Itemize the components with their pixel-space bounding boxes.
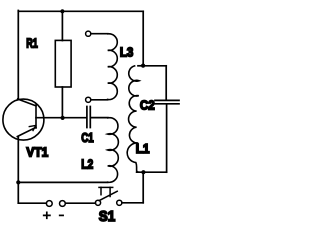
wire C2 bottom lead — [166, 104, 168, 172]
wire C1 to L2 — [91, 117, 108, 119]
node battery minus terminal circle — [60, 201, 66, 207]
svg-text:VT1: VT1 — [26, 145, 48, 160]
svg-text:C1: C1 — [81, 130, 93, 145]
node top rail junction dot — [60, 9, 64, 13]
label plus — [44, 212, 50, 218]
switch S1 actuator right leg — [109, 187, 111, 196]
svg-text:L3: L3 — [120, 44, 133, 59]
switch S1 actuator bar — [99, 186, 113, 188]
svg-text:C2: C2 — [140, 98, 155, 113]
svg-text:R1: R1 — [26, 36, 38, 51]
inductor L1 — [127, 66, 139, 172]
wire right riser — [142, 172, 144, 203]
wire R1 bottom lead — [61, 87, 63, 118]
svg-text:L1: L1 — [136, 141, 150, 156]
inductor L3 — [108, 34, 118, 100]
svg-text:S1: S1 — [99, 209, 115, 223]
node battery plus terminal circle — [46, 201, 52, 207]
wire L3 bottom coil to terminal — [91, 99, 108, 101]
inductor L2 — [108, 118, 119, 183]
switch S1 contact right circle — [117, 200, 122, 205]
node L3 bottom terminal circle — [86, 97, 91, 102]
wire battery to switch — [65, 202, 95, 204]
switch S1 blade — [99, 191, 117, 200]
wire bottom left to battery — [18, 202, 46, 204]
svg-text:L2: L2 — [81, 156, 93, 171]
node L1 bottom junction dot — [141, 170, 145, 174]
wire L1 top to C2 — [143, 65, 166, 67]
wire L3 top terminal to coil — [91, 33, 108, 35]
wire top rail — [18, 10, 143, 12]
capacitor C2 — [155, 100, 179, 103]
wire right drop from top rail to L1 top — [142, 11, 144, 65]
node L1 top junction dot — [141, 64, 145, 68]
label minus — [60, 214, 63, 216]
wire R1 top lead — [61, 11, 63, 40]
node base junction dot — [61, 116, 65, 120]
resistor R1 — [55, 40, 71, 87]
wire left rail upper (collector lead) — [17, 11, 19, 100]
wire L2 bottom to left rail — [18, 181, 107, 183]
node L3 top terminal circle — [86, 31, 91, 36]
wire L1 bottom to C2 bottom — [137, 171, 167, 173]
switch S1 contact left circle — [95, 200, 100, 205]
wire L1 top junction stub — [138, 65, 143, 67]
wire left rail lower (emitter lead) — [17, 137, 19, 203]
capacitor C1 — [87, 107, 90, 128]
transistor VT1 — [3, 99, 44, 140]
node left rail junction dot — [16, 180, 20, 184]
wire switch to right riser — [122, 202, 143, 204]
wire C2 top lead — [165, 66, 167, 100]
switch S1 actuator left leg — [100, 187, 102, 194]
wire base node (transistor base to C1) — [36, 117, 86, 119]
